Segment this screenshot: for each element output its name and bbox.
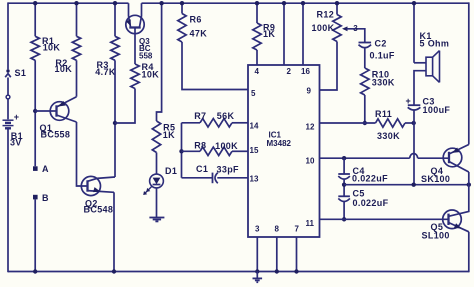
potentiometer R12 100K xyxy=(336,3,338,14)
svg-text:R7: R7 xyxy=(194,111,206,121)
wire IC pin 7 to ground rail xyxy=(296,237,298,272)
wire battery minus to ground rail xyxy=(7,129,9,272)
wire top supply rail right segment xyxy=(142,2,469,4)
wire hop over speaker column xyxy=(410,153,418,158)
svg-text:1K: 1K xyxy=(263,29,275,39)
node junction R2 top xyxy=(74,1,78,5)
resistor R6 47K xyxy=(181,3,183,13)
wire Q3 base to R4 xyxy=(134,28,136,65)
svg-text:4: 4 xyxy=(255,67,260,76)
resistor R10 330K xyxy=(361,68,369,95)
wire bottom ground rail xyxy=(8,271,469,273)
resistor R1 10K xyxy=(34,3,36,36)
svg-text:56K: 56K xyxy=(217,111,235,121)
svg-text:10K: 10K xyxy=(43,43,61,53)
node junction R10/R11/pin12 xyxy=(363,121,367,125)
wire Q5 emitter to ground rail xyxy=(468,232,470,272)
LED D1 xyxy=(150,174,164,188)
svg-text:SL100: SL100 xyxy=(422,230,450,240)
svg-text:9: 9 xyxy=(307,87,312,96)
node junction C4/output row xyxy=(342,183,346,187)
wire IC pin 3 to ground rail xyxy=(256,237,258,272)
resistor R5 1K xyxy=(157,3,162,121)
svg-text:7: 7 xyxy=(295,225,300,234)
resistor R3 4.7K xyxy=(114,3,116,36)
svg-text:BC558: BC558 xyxy=(41,130,71,140)
svg-text:10: 10 xyxy=(306,156,315,165)
wire C3 to R11 node xyxy=(413,111,415,124)
wire R1 bottom to probe A xyxy=(34,60,36,166)
node junction R11/C3/speaker xyxy=(412,121,416,125)
node junction R8 left xyxy=(179,149,183,153)
svg-text:12: 12 xyxy=(306,122,315,131)
wire probe B to ground rail xyxy=(34,199,36,271)
wire Q4 collector to output row xyxy=(468,172,470,185)
svg-text:10K: 10K xyxy=(142,70,160,80)
wire Q1 collector down to Q2 base xyxy=(77,122,88,186)
svg-text:0.022uF: 0.022uF xyxy=(352,174,388,184)
wire D1 cathode to ground xyxy=(156,188,158,217)
transistor Q3 BC558 xyxy=(126,15,144,33)
node junction R12 top xyxy=(335,1,339,5)
ground symbol below rail xyxy=(256,272,258,279)
svg-text:558: 558 xyxy=(139,51,153,60)
wire Q1 base from node A column xyxy=(35,110,53,112)
wire right edge rail to Q4 emitter xyxy=(468,2,470,144)
node junction output/speaker column xyxy=(412,183,416,187)
svg-text:330K: 330K xyxy=(372,78,395,88)
svg-text:100K: 100K xyxy=(312,23,335,33)
svg-text:R8: R8 xyxy=(194,141,206,151)
wire R4 bottom to R3 node xyxy=(115,89,135,124)
svg-text:2: 2 xyxy=(287,67,292,76)
R12 wiper arrow to pin 3 via C2 xyxy=(342,26,348,31)
speaker K1 5 Ohm xyxy=(413,3,415,63)
transistor Q2 BC548 xyxy=(81,176,100,195)
resistor R9 1K xyxy=(256,3,258,23)
ground below D1 xyxy=(149,217,164,219)
wire IC pin 10 to Q4 base xyxy=(320,157,410,159)
svg-text:+: + xyxy=(14,112,20,122)
svg-text:SK100: SK100 xyxy=(421,174,450,184)
wire Q2 emitter to ground rail xyxy=(113,192,115,271)
svg-text:16: 16 xyxy=(301,67,310,76)
svg-text:10K: 10K xyxy=(55,64,73,74)
wire speaker bottom terminal to C3 xyxy=(414,71,426,105)
wire IC pin 11 to Q5 base xyxy=(320,218,449,220)
wire R3 bottom to Q2 collector xyxy=(114,60,116,177)
resistor R8 100K xyxy=(182,150,201,152)
node A probe terminal xyxy=(33,166,38,171)
wire top supply rail left segment xyxy=(8,2,129,4)
svg-text:13: 13 xyxy=(250,174,259,183)
wire IC pin 12 row xyxy=(320,122,376,124)
wire R6 bottom to IC pin 5 xyxy=(182,42,248,90)
node junction R3 top xyxy=(113,1,117,5)
svg-text:BC548: BC548 xyxy=(84,205,114,215)
wire C4 bottom through output row xyxy=(343,180,345,197)
node junction C4 top xyxy=(342,156,346,160)
svg-text:11: 11 xyxy=(306,219,315,228)
node junction R3/R4/Q2 xyxy=(113,121,117,125)
node B probe terminal xyxy=(33,195,38,200)
capacitor C4 0.022uF xyxy=(343,158,345,174)
svg-text:330K: 330K xyxy=(377,131,400,141)
node junction Q2 emitter ground xyxy=(112,269,116,273)
svg-text:5: 5 xyxy=(251,89,256,98)
svg-text:0.1uF: 0.1uF xyxy=(370,50,395,60)
wire C2 to R10 xyxy=(364,48,366,68)
svg-text:M3482: M3482 xyxy=(267,139,292,148)
resistor R4 10K xyxy=(131,64,139,89)
wire left battery column top xyxy=(7,2,9,69)
capacitor C5 0.022uF xyxy=(338,195,350,197)
svg-text:8: 8 xyxy=(275,225,280,234)
svg-text:C5: C5 xyxy=(353,188,365,198)
svg-text:R12: R12 xyxy=(317,9,335,19)
node junction R1 top xyxy=(33,1,37,5)
wire R12 bottom to IC pin 9 xyxy=(320,42,338,91)
wire output node row xyxy=(344,184,469,186)
svg-text:14: 14 xyxy=(250,122,259,131)
wire R10 bottom to pin12 row xyxy=(364,95,366,123)
svg-text:33pF: 33pF xyxy=(217,165,240,175)
op-amp U1 IC1 M3482 melody generator xyxy=(248,65,320,237)
wire C5 bottom to pin 11 row xyxy=(343,202,345,219)
resistor R7 56K xyxy=(182,122,201,124)
svg-text:B: B xyxy=(42,193,49,203)
svg-text:R6: R6 xyxy=(190,14,202,24)
svg-text:D1: D1 xyxy=(165,166,177,176)
svg-text:C1: C1 xyxy=(196,164,208,174)
wire R2 bottom to Q1 emitter xyxy=(76,60,78,96)
wire R5 to D1 xyxy=(156,153,158,175)
wire IC pin 2 to rail xyxy=(283,3,285,65)
capacitor C1 33pF xyxy=(182,177,213,179)
node junction pin2 top xyxy=(282,1,286,5)
switch S1 xyxy=(6,69,9,72)
transistor Q5 SL100 xyxy=(443,210,462,229)
wire oscillator ladder left bus xyxy=(181,123,183,178)
node junction B ground xyxy=(33,269,37,273)
svg-text:3: 3 xyxy=(353,24,358,33)
svg-text:100uF: 100uF xyxy=(423,105,451,115)
wire IC pin 16 to rail xyxy=(302,3,304,65)
svg-text:3V: 3V xyxy=(10,138,22,148)
svg-text:C2: C2 xyxy=(375,38,387,48)
svg-text:S1: S1 xyxy=(15,68,27,78)
svg-text:1K: 1K xyxy=(163,130,175,140)
node junction C5/pin11 row xyxy=(342,217,346,221)
svg-text:5 Ohm: 5 Ohm xyxy=(420,39,450,49)
node junction R6 top xyxy=(180,1,184,5)
battery B1 3V xyxy=(3,119,14,121)
resistor R11 330K xyxy=(376,119,406,127)
wire IC pin 8 to ground rail xyxy=(276,237,278,272)
svg-text:4.7K: 4.7K xyxy=(95,67,116,77)
svg-text:100K: 100K xyxy=(215,141,238,151)
capacitor C2 0.1uF xyxy=(359,42,372,44)
node junction R9 top xyxy=(255,1,259,5)
wire speaker column down to output node xyxy=(413,123,415,185)
wire output row to Q5 collector xyxy=(449,185,469,217)
node junction pin16 top xyxy=(301,1,305,5)
node junction Q1 base xyxy=(33,109,37,113)
svg-text:15: 15 xyxy=(250,146,259,155)
node junction R5 top xyxy=(159,1,163,5)
node junction output/collectors xyxy=(467,183,471,187)
transistor Q4 SK100 xyxy=(443,148,462,167)
svg-text:47K: 47K xyxy=(190,29,208,39)
svg-text:R11: R11 xyxy=(375,109,392,119)
resistor R2 10K xyxy=(76,3,78,36)
svg-text:A: A xyxy=(42,164,49,174)
svg-text:3: 3 xyxy=(255,225,260,234)
svg-text:0.022uF: 0.022uF xyxy=(353,198,389,208)
transistor Q1 BC558 xyxy=(50,102,69,121)
